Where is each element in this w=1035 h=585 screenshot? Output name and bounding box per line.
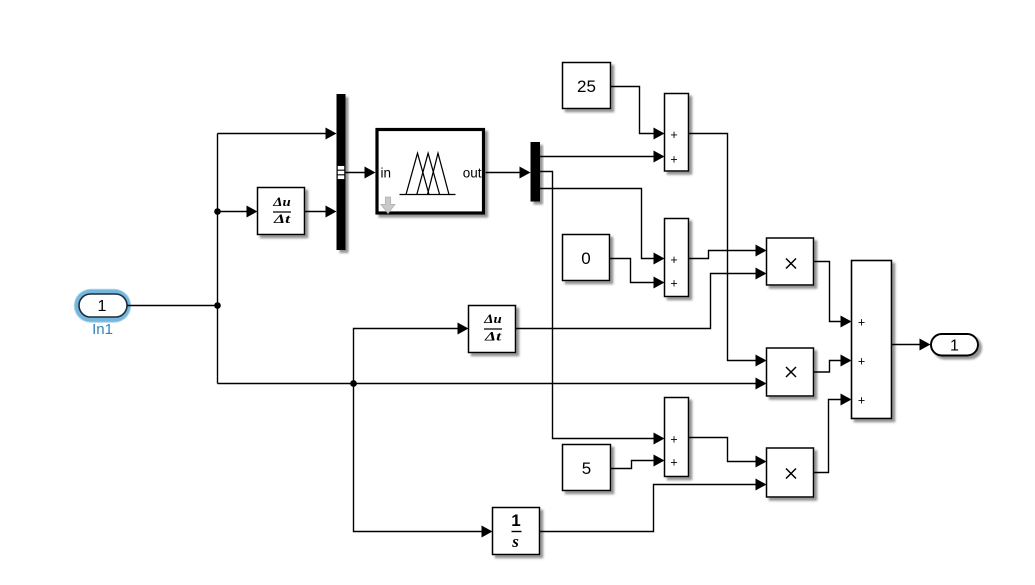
wire D1 to mux input 2 bbox=[305, 206, 337, 218]
svg-text:1: 1 bbox=[950, 337, 959, 354]
wire constant25 to sum S1 input 1 bbox=[611, 87, 665, 140]
wire S4 out to product P3 input 1 bbox=[689, 438, 767, 468]
node junction on trunk at inport wire bbox=[214, 302, 221, 309]
wire trunk top to mux input 1 bbox=[218, 128, 337, 140]
svg-text:+: + bbox=[670, 152, 677, 166]
outport 1 bbox=[931, 334, 978, 356]
svg-text:Δu: Δu bbox=[272, 194, 291, 209]
constant 5 bbox=[563, 445, 611, 491]
svg-text:1: 1 bbox=[98, 298, 107, 315]
wire demux out1 to sum S1 input 2 bbox=[540, 151, 665, 163]
sum S4 bbox=[665, 398, 689, 477]
node junction main bbox=[350, 380, 357, 387]
svg-text:In1: In1 bbox=[92, 321, 113, 338]
svg-text:+: + bbox=[670, 128, 677, 142]
svg-text:s: s bbox=[511, 532, 519, 551]
wire P1 out to sum S3 input 1 bbox=[814, 262, 852, 328]
svg-text:+: + bbox=[858, 354, 865, 368]
svg-text:Δu: Δu bbox=[483, 311, 502, 326]
wire constant5 to sum S4 input 2 bbox=[611, 455, 665, 469]
svg-text:5: 5 bbox=[582, 459, 591, 478]
wire integrator out to product P3 input 2 bbox=[540, 479, 767, 532]
wire demux out2 to sum S4 input 1 bbox=[540, 172, 665, 445]
wire junction to product P2 input 2 bbox=[354, 378, 767, 390]
inport In1 bbox=[79, 294, 127, 317]
svg-text:+: + bbox=[858, 315, 865, 329]
wire D2 out to product P1 input 2 bbox=[516, 268, 767, 329]
constant 25 bbox=[563, 63, 611, 109]
svg-text:in: in bbox=[381, 166, 392, 181]
sum S1 bbox=[665, 94, 689, 172]
wire junction down to integrator bbox=[354, 384, 493, 538]
svg-text:1: 1 bbox=[511, 511, 520, 530]
sum S3 bbox=[852, 261, 892, 419]
wire S3 out to outport bbox=[892, 339, 931, 351]
svg-text:out: out bbox=[463, 166, 482, 181]
product P3 bbox=[767, 448, 814, 497]
constant 0 bbox=[563, 235, 610, 281]
fuzzy logic controller block bbox=[377, 130, 484, 214]
wire main vertical trunk bbox=[217, 134, 219, 384]
demux bbox=[531, 142, 541, 202]
wire S1 out to product P2 input 1 bbox=[689, 134, 767, 367]
sum S2 bbox=[665, 219, 689, 297]
wire inport to junction bbox=[128, 305, 218, 307]
svg-text:+: + bbox=[670, 277, 677, 291]
wire fuzzy out to demux bbox=[486, 167, 531, 179]
svg-text:+: + bbox=[670, 432, 677, 446]
integrator 1/s bbox=[493, 508, 540, 555]
wire demux out3 to sum S2 input 1 bbox=[540, 189, 665, 265]
svg-text:Δt: Δt bbox=[484, 329, 502, 344]
wire P2 out to sum S3 input 2 bbox=[814, 355, 852, 373]
derivative block D1 du/dt bbox=[258, 188, 305, 235]
node junction on trunk at derivative branch bbox=[214, 208, 221, 215]
wire trunk bottom to main junction bbox=[218, 383, 354, 385]
svg-text:Δt: Δt bbox=[273, 211, 291, 226]
svg-text:+: + bbox=[670, 253, 677, 267]
svg-text:+: + bbox=[858, 393, 865, 407]
svg-text:25: 25 bbox=[577, 77, 596, 96]
wire mux to fuzzy in bbox=[346, 167, 376, 179]
mux bbox=[337, 94, 346, 250]
derivative block D2 du/dt bbox=[469, 306, 516, 353]
wire junction up to derivative D2 bbox=[354, 323, 469, 384]
svg-text:+: + bbox=[670, 455, 677, 469]
wire S2 out to product P1 input 1 bbox=[689, 245, 767, 259]
wire trunk to derivative D1 bbox=[218, 206, 258, 218]
wire P3 out to sum S3 input 3 bbox=[814, 394, 852, 473]
inport In1 selection glow bbox=[74, 289, 131, 323]
svg-text:0: 0 bbox=[581, 249, 590, 268]
product P2 bbox=[767, 348, 814, 396]
product P1 bbox=[767, 238, 814, 285]
wire constant0 to sum S2 input 2 bbox=[610, 259, 665, 289]
